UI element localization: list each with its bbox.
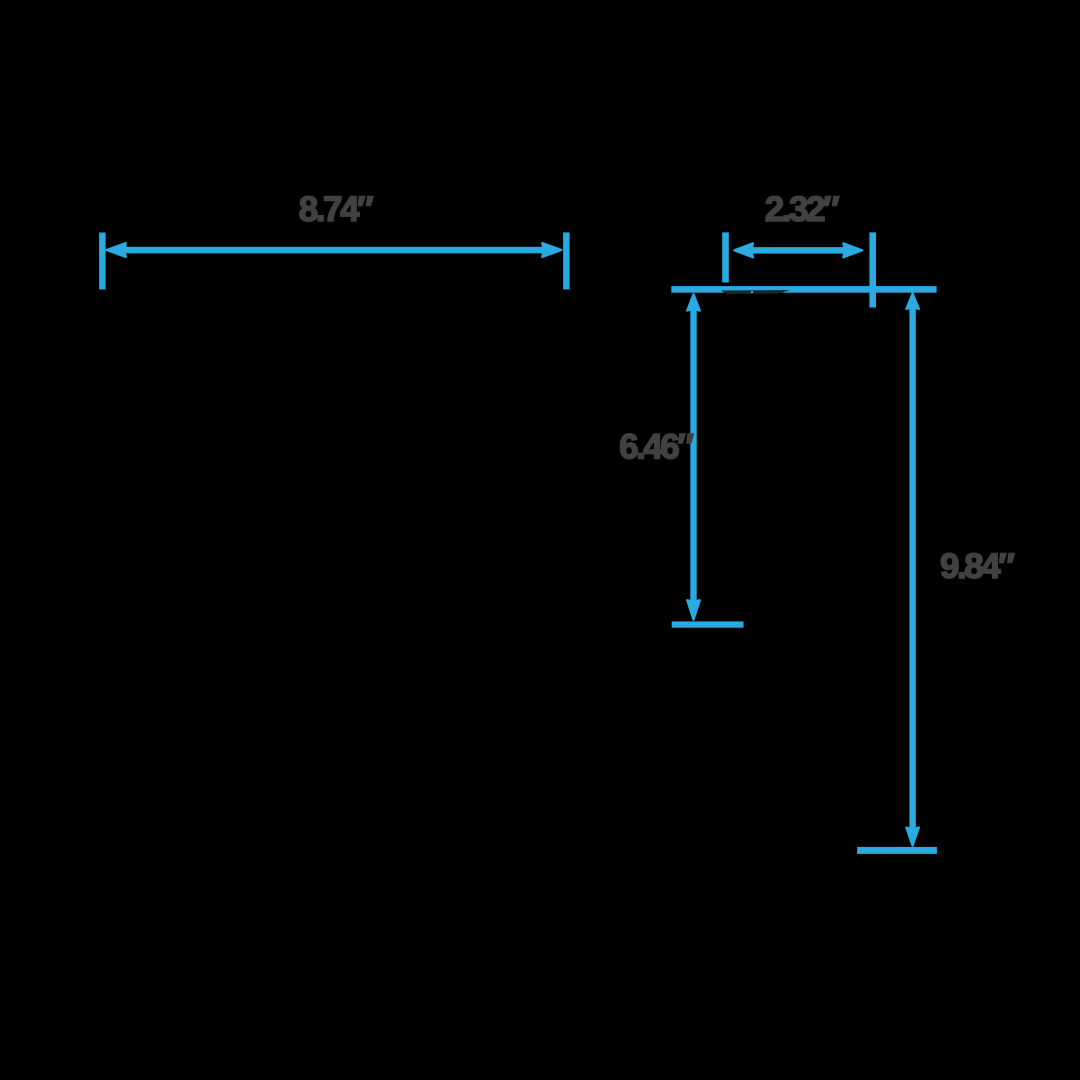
faint highlight dot on product edge [751, 291, 753, 293]
svg-text:6.46″: 6.46″ [619, 427, 694, 466]
height dimension 6.46in: top arrowhead (points up) [687, 294, 700, 310]
svg-text:8.74″: 8.74″ [299, 190, 374, 229]
overall height dimension 9.84in: shaft [909, 306, 915, 830]
svg-text:9.84″: 9.84″ [940, 547, 1015, 586]
width dimension 8.74in: right end tick [563, 232, 570, 289]
overall height dimension 9.84in: bottom tick [857, 847, 937, 854]
depth dimension 2.32in: left arrowhead [734, 243, 753, 257]
width dimension 8.74in: right arrowhead [542, 243, 561, 257]
height dimension 6.46in: bottom arrowhead (points down) [687, 600, 700, 619]
depth dimension 2.32in: arrow shaft [748, 247, 848, 254]
width dimension 8.74in: left arrowhead [107, 243, 126, 257]
svg-text:2.32″: 2.32″ [765, 190, 840, 229]
overall height dimension 9.84in: top arrowhead (points up) [906, 293, 919, 309]
width dimension 8.74in: left end tick [99, 233, 106, 290]
top reference line (product top) [671, 286, 936, 293]
height dimension 6.46in: bottom tick [672, 621, 744, 627]
faint product edge remnant under top line [721, 290, 790, 294]
width dimension 8.74in: arrow shaft [120, 247, 548, 254]
height dimension 6.46in: shaft [690, 306, 696, 603]
depth dimension 2.32in: right end tick (long, crosses top line) [869, 232, 876, 307]
depth dimension 2.32in: left end tick [722, 232, 729, 282]
overall height dimension 9.84in: bottom arrowhead (points down) [906, 828, 919, 846]
depth dimension 2.32in: right arrowhead [843, 243, 862, 257]
